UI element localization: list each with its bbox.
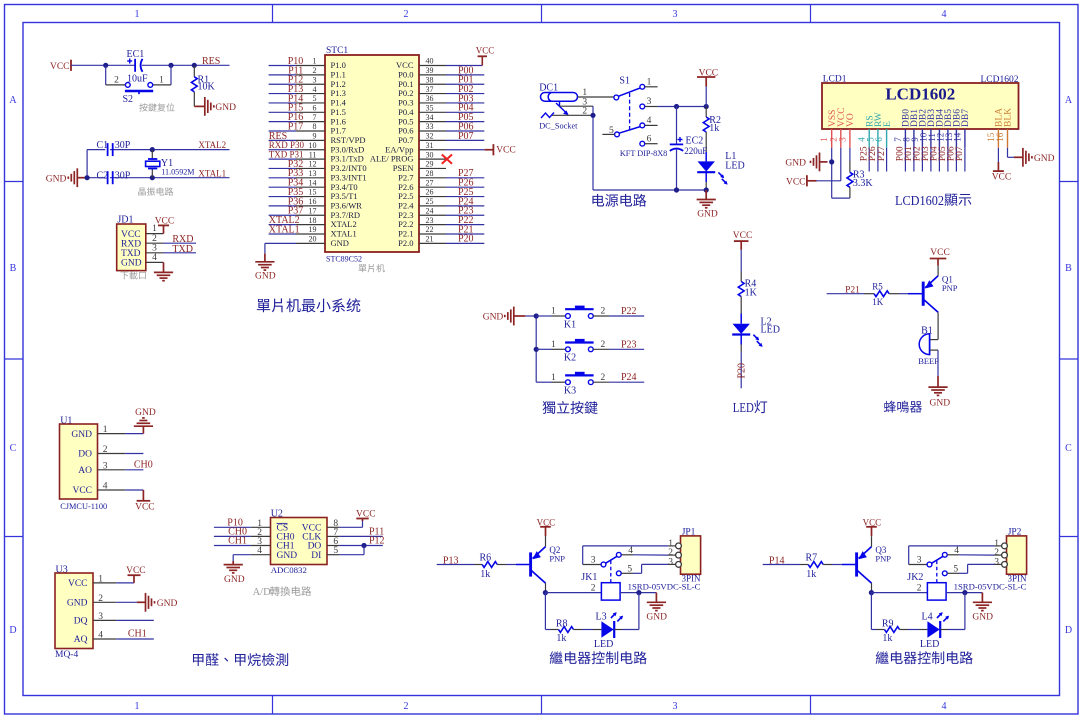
svg-text:1: 1 <box>135 701 140 712</box>
wire P21 to R5 <box>827 293 864 295</box>
wire/pin 4 left MCU net P13 <box>296 93 325 95</box>
ground GND (JK2) <box>981 593 983 603</box>
svg-text:20: 20 <box>309 235 317 244</box>
svg-text:GND: GND <box>46 174 67 184</box>
svg-text:A: A <box>1065 95 1073 106</box>
node LCD gnd junction <box>829 159 834 164</box>
svg-text:4: 4 <box>257 546 262 556</box>
node Q3 collector junction <box>869 590 874 595</box>
wire U2 pin5 to junction <box>339 554 364 556</box>
pin 3 of JP1 <box>676 562 682 568</box>
svg-text:VCC: VCC <box>930 248 950 258</box>
svg-text:18: 18 <box>309 216 317 225</box>
wire P13 to R6 <box>437 564 474 566</box>
node reset-left junction <box>103 63 108 68</box>
svg-text:1K: 1K <box>745 287 758 298</box>
wire LCD net P07 <box>964 148 966 172</box>
wire VCC to EC1 <box>71 64 135 66</box>
ground GND (U1) <box>134 425 153 427</box>
wire pin 34 right MCU net P05 <box>419 121 446 123</box>
svg-text:10K: 10K <box>198 82 216 93</box>
LCD pin2 wire to VCC <box>840 148 842 181</box>
svg-text:30: 30 <box>426 150 434 159</box>
svg-text:4: 4 <box>152 253 157 263</box>
svg-text:10: 10 <box>309 141 317 150</box>
svg-text:GND: GND <box>646 612 667 622</box>
svg-text:4: 4 <box>942 9 947 20</box>
svg-text:LCD1602: LCD1602 <box>895 194 944 209</box>
resistor R4 <box>740 272 742 282</box>
ground GND (buzzer) <box>937 376 939 387</box>
svg-text:17: 17 <box>309 206 317 215</box>
svg-text:2: 2 <box>601 307 606 317</box>
power port VCC (JD1) <box>163 225 165 233</box>
svg-text:30P: 30P <box>115 170 131 181</box>
transistor Q3 PNP <box>855 552 858 576</box>
svg-text:XTAL1: XTAL1 <box>269 224 300 235</box>
svg-text:XTAL2: XTAL2 <box>198 140 226 150</box>
svg-text:GND: GND <box>255 271 276 281</box>
svg-text:TXD: TXD <box>172 244 193 255</box>
wire contact 4 to JP2 pin2 <box>959 554 994 556</box>
wire U1 pin3 net CH0 <box>125 469 143 471</box>
svg-text:12: 12 <box>309 160 317 169</box>
svg-text:P07: P07 <box>955 146 965 161</box>
ground GND (JD1) <box>163 262 165 272</box>
section title dian yuan dian lu <box>592 194 604 207</box>
svg-text:1: 1 <box>98 574 103 584</box>
wire/pin 6 left MCU net P15 <box>296 111 325 113</box>
svg-text:R8: R8 <box>556 618 568 629</box>
section title jia quan jia wan jian ce <box>193 654 203 666</box>
capacitor EC1 <box>134 59 136 72</box>
ground GND (LCD left) <box>820 161 828 163</box>
pin 2 of JP1 <box>676 552 682 558</box>
svg-text:VCC: VCC <box>72 486 92 496</box>
wire pin 25 right MCU net P24 <box>419 205 446 207</box>
svg-text:1: 1 <box>103 425 108 435</box>
resistor R1 <box>193 65 195 77</box>
svg-text:1k: 1k <box>556 633 566 644</box>
wire keys left vertical <box>535 316 537 382</box>
wire/pin 16 left MCU net P36 <box>296 205 325 207</box>
svg-text:JP2: JP2 <box>1008 528 1022 538</box>
svg-text:S1: S1 <box>619 75 630 86</box>
wire LCD net P25 <box>868 148 870 172</box>
svg-text:P24: P24 <box>621 372 637 383</box>
svg-text:1: 1 <box>647 78 652 88</box>
svg-text:4: 4 <box>942 701 947 712</box>
wire LCD net P06 <box>955 148 957 172</box>
svg-text:DO: DO <box>78 450 92 460</box>
wire U1 pin2 <box>125 453 143 455</box>
transistor Q1 PNP <box>922 282 925 306</box>
svg-text:1: 1 <box>551 373 556 383</box>
svg-text:VCC: VCC <box>992 172 1012 182</box>
section title dan pian ji zui xiao xi tong <box>257 299 270 312</box>
wire U1 pin1 to GND <box>125 433 143 435</box>
svg-text:29: 29 <box>426 160 434 169</box>
svg-text:4: 4 <box>628 546 633 556</box>
pin 1 of DC1 <box>578 96 614 98</box>
wire LCD net P01 <box>913 148 915 172</box>
svg-text:VCC: VCC <box>68 579 88 589</box>
wire VCC to Q3 emitter <box>871 536 873 546</box>
ground GND (MCU) <box>264 254 266 262</box>
svg-text:VCC: VCC <box>121 230 141 240</box>
wire U2 pin7 net P11 <box>339 535 382 537</box>
svg-text:B: B <box>10 263 17 274</box>
svg-text:3: 3 <box>98 612 103 622</box>
transistor Q2 PNP <box>529 552 532 576</box>
wire pin 27 right MCU net P26 <box>419 186 446 188</box>
wire K2 to P23 <box>593 348 609 350</box>
svg-text:GND: GND <box>1034 154 1055 164</box>
wire left vertical to contact 3 <box>908 546 910 565</box>
svg-text:GND: GND <box>277 551 298 561</box>
svg-text:1: 1 <box>551 340 556 350</box>
connector JP2 <box>1007 536 1027 574</box>
ground GND (U2) <box>232 561 234 565</box>
svg-text:EC1: EC1 <box>127 49 145 60</box>
svg-text:4: 4 <box>313 85 317 94</box>
wire K1 to P22 <box>593 315 609 317</box>
wire LCD net P27 <box>886 148 888 172</box>
svg-text:22: 22 <box>426 225 434 234</box>
wire U2 pin3 net CH1 <box>214 545 251 547</box>
svg-text:LED: LED <box>920 639 939 650</box>
comment text xia zai kou <box>120 272 128 280</box>
wire contact 5 to JP1 pin3 <box>633 572 642 574</box>
LED L1 <box>705 152 707 161</box>
svg-text:36: 36 <box>426 94 434 103</box>
comment text an jian fu wei <box>139 103 147 111</box>
relay coil JK1 <box>601 583 620 600</box>
svg-text:1k: 1k <box>806 569 816 580</box>
svg-text:VCC: VCC <box>476 45 495 55</box>
svg-text:11: 11 <box>309 150 317 159</box>
wire U3 pin2 to GND <box>116 601 137 603</box>
svg-text:XTAL1: XTAL1 <box>198 169 226 179</box>
svg-text:1: 1 <box>135 9 140 20</box>
svg-text:5: 5 <box>627 564 632 574</box>
svg-text:7: 7 <box>313 113 317 122</box>
wire/pin 11 left MCU net TXD P31 <box>296 158 325 160</box>
svg-text:39: 39 <box>426 66 434 75</box>
resistor R5 <box>864 293 874 295</box>
capacitor C2 <box>105 171 110 184</box>
svg-text:D: D <box>9 625 16 636</box>
svg-text:VCC: VCC <box>135 503 155 513</box>
resistor R7 <box>800 564 808 566</box>
svg-text:GND: GND <box>930 399 951 409</box>
svg-text:1k: 1k <box>709 123 719 134</box>
svg-text:11.0592M: 11.0592M <box>161 168 194 177</box>
wire JK2 to gnd node <box>946 592 982 594</box>
wire/pin 7 left MCU net P16 <box>296 121 325 123</box>
svg-text:VCC: VCC <box>733 231 753 241</box>
svg-text:6: 6 <box>313 104 317 113</box>
svg-text:2: 2 <box>98 594 103 604</box>
svg-text:DB7: DB7 <box>961 109 971 127</box>
node crystal gnd junction <box>85 175 90 180</box>
svg-text:28: 28 <box>426 169 434 178</box>
wire VCC to Q2 emitter <box>545 536 547 546</box>
wire U1 pin4 to VCC <box>125 489 143 491</box>
node reset-right junction <box>168 63 173 68</box>
wire U2 pin8 to VCC <box>339 526 362 528</box>
node DO-DI junction <box>361 543 366 548</box>
svg-text:3PIN: 3PIN <box>1008 574 1028 584</box>
switch S2 (reset button) <box>105 65 107 85</box>
power port VCC (U1) <box>142 490 144 501</box>
svg-text:LED: LED <box>761 324 780 335</box>
svg-text:JK2: JK2 <box>907 572 923 583</box>
power port VCC (U2) <box>362 519 364 522</box>
svg-text:GND: GND <box>135 408 156 418</box>
svg-text:31: 31 <box>426 141 434 150</box>
wire VCC down to R2 <box>705 87 707 107</box>
wire JP1 pin1 left <box>583 545 668 547</box>
svg-text:3.3K: 3.3K <box>853 178 874 189</box>
svg-text:3: 3 <box>673 9 678 20</box>
svg-text:5: 5 <box>333 546 338 556</box>
pin 3 of DC1 <box>559 101 561 106</box>
svg-text:DI: DI <box>311 551 321 561</box>
svg-text:23: 23 <box>426 216 434 225</box>
wire LCD net P04 <box>938 148 940 172</box>
svg-text:LED: LED <box>725 161 744 172</box>
svg-text:3: 3 <box>994 557 999 567</box>
svg-text:P07: P07 <box>458 131 474 142</box>
wire bottom power rail <box>593 189 706 191</box>
svg-text:L3: L3 <box>596 611 607 622</box>
svg-text:MQ-4: MQ-4 <box>55 650 78 660</box>
wire pin 38 right MCU net P01 <box>419 83 446 85</box>
svg-text:9: 9 <box>313 132 317 141</box>
power port VCC (U3) <box>133 575 135 583</box>
capacitor C1 <box>105 143 110 156</box>
wire/pin 14 left MCU net P34 <box>296 186 325 188</box>
pin 2 of JD1 / net RXD <box>146 242 164 244</box>
svg-text:1: 1 <box>313 57 317 66</box>
relay switch contact 3 <box>927 562 932 567</box>
wire pin 35 right MCU net P04 <box>419 111 446 113</box>
node JK1 right junction <box>636 590 641 595</box>
wire L3 to right vertical <box>614 629 622 631</box>
wire pin 21 right MCU net P20 <box>419 242 446 244</box>
svg-text:VCC: VCC <box>786 177 806 187</box>
svg-text:EC2: EC2 <box>686 136 704 147</box>
svg-text:6: 6 <box>874 137 884 142</box>
wire pin 36 right MCU net P03 <box>419 102 446 104</box>
svg-text:DC_Socket: DC_Socket <box>539 122 578 131</box>
switch K1 <box>536 315 551 317</box>
ground GND (reset) <box>194 105 205 107</box>
wire/pin 5 left MCU net P14 <box>296 102 325 104</box>
comment text dan pian ji <box>359 264 367 272</box>
wire U3 pin1 to VCC <box>116 582 134 584</box>
wire buzzer to GND <box>930 349 938 351</box>
pin 30 ALE no-connect X <box>419 158 446 160</box>
svg-text:S2: S2 <box>123 94 134 105</box>
wire Q3 collector down <box>871 583 873 593</box>
pin 3 of JD1 / net TXD <box>146 252 164 254</box>
wire LCD net P00 <box>904 148 906 172</box>
svg-text:K1: K1 <box>564 319 576 330</box>
wire R7 to Q3 base <box>832 564 842 566</box>
svg-text:13: 13 <box>309 169 317 178</box>
svg-text:CJMCU-1100: CJMCU-1100 <box>60 502 107 511</box>
svg-text:14: 14 <box>309 178 317 187</box>
pin 1 of JP2 <box>1002 543 1008 549</box>
svg-text:C: C <box>10 443 17 454</box>
svg-text:E: E <box>883 121 893 127</box>
capacitor EC2 <box>676 107 678 145</box>
svg-text:PNP: PNP <box>875 554 891 564</box>
wire/pin 19 left MCU net XTAL1 <box>296 233 325 235</box>
switch K2 <box>536 348 551 350</box>
wire P14 to R7 <box>763 564 800 566</box>
wire U3 pin4 net CH1 <box>116 638 154 640</box>
wire Q2 collector down <box>545 583 547 593</box>
svg-text:KFT DIP-8X8: KFT DIP-8X8 <box>620 149 667 158</box>
svg-text:K3: K3 <box>564 386 576 397</box>
svg-text:34: 34 <box>426 113 434 122</box>
power port VCC (pin31) <box>492 144 494 155</box>
svg-text:DQ: DQ <box>74 617 88 627</box>
wire U2 pin4 to GND <box>233 554 251 556</box>
wire S1 contact3 to power node <box>658 106 707 108</box>
svg-text:3: 3 <box>673 701 678 712</box>
wire LCD net P03 <box>930 148 932 172</box>
wire JK1 to gnd node <box>620 592 656 594</box>
wire LCD net P05 <box>947 148 949 172</box>
pin 1 of JD1 <box>146 233 164 235</box>
wire/pin 3 left MCU net P12 <box>296 83 325 85</box>
svg-text:LCD1602: LCD1602 <box>885 85 955 104</box>
svg-text:VCC: VCC <box>496 146 516 156</box>
wire/pin 12 left MCU net P32 <box>296 167 325 169</box>
power port VCC (LCD left) <box>807 180 817 182</box>
svg-text:16: 16 <box>995 132 1005 142</box>
svg-text:24: 24 <box>426 206 434 215</box>
ground GND (JK1) <box>655 593 657 603</box>
node R2 top rail <box>704 104 709 109</box>
wire collector to JK1 <box>545 592 601 594</box>
pin 3 of JP2 <box>1002 562 1008 568</box>
wire/pin 10 left MCU net RXD P30 <box>296 149 325 151</box>
section title du li an jian <box>542 401 555 414</box>
wire VCC to Q1 emitter <box>937 266 939 276</box>
wire LCD net P26 <box>877 148 879 172</box>
node Q2 collector junction <box>543 590 548 595</box>
svg-text:220uF: 220uF <box>684 146 707 156</box>
pin 2 of DC1 <box>552 114 593 116</box>
node JK2 right junction <box>962 590 967 595</box>
svg-text:2: 2 <box>591 584 596 594</box>
node LED bottom <box>704 187 709 192</box>
wire XTAL1 line <box>87 177 229 179</box>
svg-text:1k: 1k <box>882 633 892 644</box>
svg-text:RES: RES <box>202 56 220 67</box>
power port VCC (backlight) <box>997 162 999 171</box>
relay switch blade <box>932 556 943 563</box>
svg-text:GND: GND <box>697 209 718 219</box>
pin 1 of JP1 <box>676 543 682 549</box>
svg-text:6: 6 <box>647 135 652 145</box>
svg-text:P20: P20 <box>458 234 474 245</box>
node key1 junction <box>534 313 539 318</box>
ground GND (backlight) <box>1014 156 1023 158</box>
svg-text:GND: GND <box>331 238 349 248</box>
contact 6 of S1 <box>640 141 645 146</box>
svg-text:2: 2 <box>582 107 587 117</box>
svg-text:C1: C1 <box>97 140 109 151</box>
pin 29 PSEN stub <box>419 167 446 169</box>
svg-text:A: A <box>9 95 17 106</box>
relay switch contact 4 <box>942 552 947 557</box>
svg-text:R5: R5 <box>872 281 883 291</box>
wire/pin 9 left MCU net RES <box>296 139 325 141</box>
svg-text:16: 16 <box>309 197 317 206</box>
svg-text:GND: GND <box>972 612 993 622</box>
svg-text:GND: GND <box>224 575 245 585</box>
svg-text:10uF: 10uF <box>127 74 148 85</box>
wire R9 to L4 <box>908 629 919 631</box>
svg-text:19: 19 <box>309 225 317 234</box>
wire EC1 to RES node <box>142 64 230 66</box>
ground GND (power) <box>705 190 707 200</box>
contact 4 of S1 <box>640 123 645 128</box>
svg-text:AQ: AQ <box>74 635 88 645</box>
svg-text:25: 25 <box>426 197 434 206</box>
svg-text:R6: R6 <box>480 553 492 564</box>
svg-text:35: 35 <box>426 104 434 113</box>
svg-text:P27: P27 <box>877 146 887 161</box>
svg-text:CH1: CH1 <box>128 629 147 640</box>
svg-text:VCC: VCC <box>126 566 146 576</box>
svg-text:BLK: BLK <box>1004 108 1014 127</box>
svg-text:CH1: CH1 <box>228 536 247 547</box>
crystal Y1 <box>151 150 153 159</box>
relay switch blade <box>606 556 617 563</box>
wire pin 24 right MCU net P23 <box>419 214 446 216</box>
svg-text:30P: 30P <box>115 140 131 151</box>
svg-text:P2.0: P2.0 <box>398 238 413 248</box>
svg-text:5: 5 <box>313 94 317 103</box>
wire LED loop left vertical <box>870 593 872 630</box>
wire K3 to P24 <box>593 381 609 383</box>
connector JP1 <box>681 536 701 574</box>
svg-text:GND: GND <box>483 313 504 323</box>
svg-text:2: 2 <box>152 234 157 244</box>
wire collector to JK2 <box>871 592 927 594</box>
svg-text:5: 5 <box>609 126 614 136</box>
wire R5 to Q1 base <box>899 293 908 295</box>
relay switch contact 4 <box>616 552 621 557</box>
section title ji dian qi kong zhi dian lu (left) <box>550 651 563 664</box>
wire/pin 18 left MCU net XTAL2 <box>296 224 325 226</box>
wire JP2 pin1 left <box>909 545 994 547</box>
svg-text:2: 2 <box>917 584 922 594</box>
svg-text:4: 4 <box>647 116 652 126</box>
pin 31 EA/Vpp wire to VCC <box>419 149 446 151</box>
svg-text:3: 3 <box>313 75 317 84</box>
svg-text:VO: VO <box>846 113 856 127</box>
wire pin 33 right MCU net P06 <box>419 130 446 132</box>
dashed link JK1 <box>610 561 612 583</box>
